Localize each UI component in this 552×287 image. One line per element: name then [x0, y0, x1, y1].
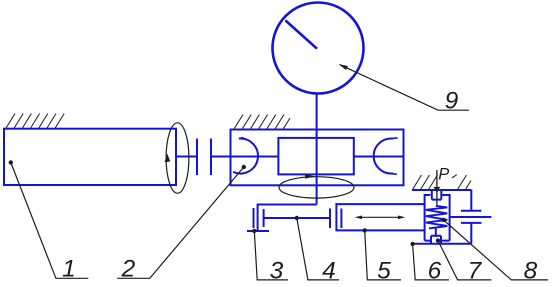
svg-text:7: 7 — [468, 257, 483, 284]
svg-text:9: 9 — [445, 88, 459, 115]
svg-text:6: 6 — [428, 257, 442, 284]
svg-text:2: 2 — [121, 256, 136, 283]
svg-text:1: 1 — [62, 256, 76, 283]
svg-text:8: 8 — [524, 257, 538, 284]
svg-text:5: 5 — [377, 257, 391, 284]
svg-text:3: 3 — [270, 257, 284, 284]
svg-text:P: P — [438, 166, 449, 184]
svg-text:4: 4 — [322, 257, 336, 284]
